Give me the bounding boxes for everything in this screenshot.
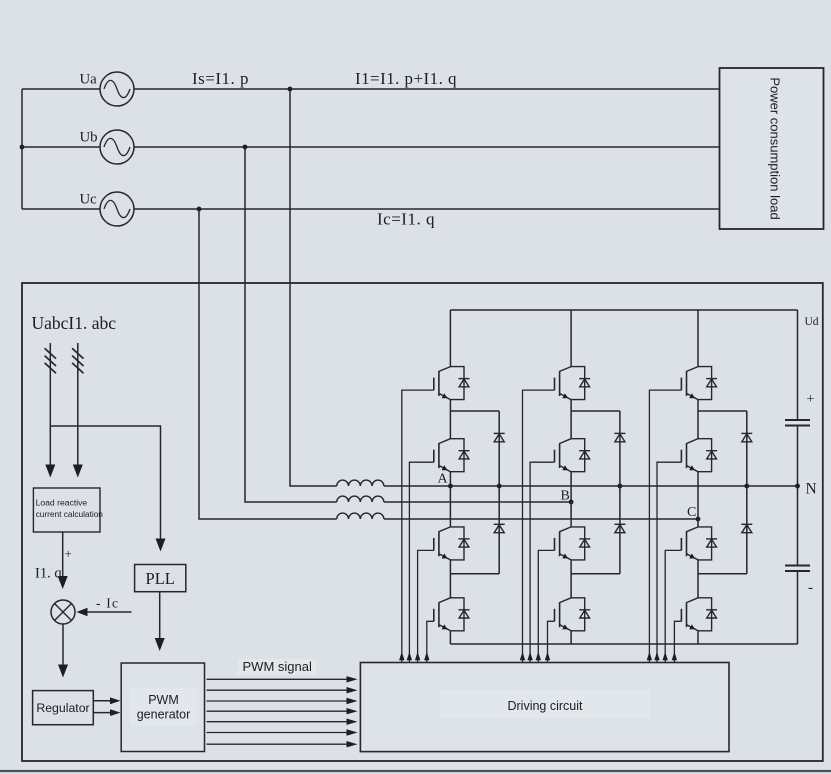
wire tap Ua down to inductor row A bbox=[290, 89, 337, 486]
wire summer to regulator bbox=[62, 624, 64, 665]
wire regulator to pwm 1 bbox=[93, 700, 110, 702]
wire DC right rail upper bbox=[797, 310, 799, 420]
wire clamp lower branch c bbox=[698, 573, 747, 575]
wire T3-T4 link a bbox=[449, 560, 451, 598]
wire T4 emitter stub b bbox=[570, 631, 572, 644]
inductor Lb bbox=[337, 496, 384, 502]
svg-text:B: B bbox=[561, 489, 570, 504]
driving circuit box bbox=[360, 663, 729, 752]
wire clamp upper column c bbox=[746, 411, 748, 486]
wire gate T1a bbox=[402, 390, 434, 662]
signal line I1.abc with arrow bbox=[77, 343, 79, 466]
wire branch to PLL bbox=[50, 426, 160, 539]
node tap on Uc wire bbox=[197, 207, 202, 212]
node N bbox=[795, 484, 800, 489]
PWM generator box bbox=[121, 663, 204, 752]
transistor T4c bbox=[681, 598, 717, 631]
svg-text:I1=I1. p+I1. q: I1=I1. p+I1. q bbox=[355, 69, 457, 88]
wire gate T3a bbox=[418, 550, 434, 662]
diode clamp lower b bbox=[614, 524, 625, 532]
source Ub bbox=[100, 130, 134, 164]
wire gate T1b bbox=[523, 390, 555, 662]
svg-text:Power consumption load: Power consumption load bbox=[768, 77, 783, 219]
svg-text:PLL: PLL bbox=[146, 569, 175, 588]
wire PLL to pwm generator bbox=[159, 592, 161, 639]
wire gate T3c bbox=[665, 550, 681, 662]
svg-text:N: N bbox=[806, 481, 817, 498]
transistor T3b bbox=[555, 527, 591, 560]
wire gate T2c bbox=[657, 462, 681, 662]
transistor T2b bbox=[555, 439, 591, 472]
wire DC bottom rail bbox=[450, 643, 797, 645]
node tap on Ub wire bbox=[243, 145, 248, 150]
wire pwm signal 2 bbox=[207, 689, 348, 691]
summing junction bbox=[51, 600, 75, 624]
wire clamp upper column a bbox=[498, 411, 500, 486]
diode clamp lower c bbox=[741, 524, 752, 532]
transistor T4b bbox=[555, 598, 591, 631]
capacitor C2 bbox=[785, 565, 810, 567]
wire gate T4b bbox=[548, 621, 555, 662]
transistor T2c bbox=[681, 439, 717, 472]
transistor T4a bbox=[434, 598, 470, 631]
svg-text:Ub: Ub bbox=[80, 130, 98, 146]
wire right rail middle bbox=[797, 426, 799, 566]
wire DC top rail bbox=[450, 309, 797, 311]
phase c leg bbox=[647, 310, 753, 663]
diode clamp upper c bbox=[741, 433, 752, 441]
node C bbox=[696, 517, 701, 522]
wire collector stub phase c bbox=[697, 310, 699, 367]
wire row C bbox=[384, 518, 698, 520]
wire Uc to load bbox=[134, 208, 720, 210]
phase b leg bbox=[520, 310, 626, 663]
wire gate T4c bbox=[674, 621, 681, 662]
svg-text:PWM: PWM bbox=[148, 693, 179, 707]
svg-text:generator: generator bbox=[137, 708, 191, 722]
source Uc bbox=[100, 192, 134, 226]
svg-text:Regulator: Regulator bbox=[36, 701, 89, 715]
wire T4 emitter stub a bbox=[449, 631, 451, 644]
svg-text:- Ic: - Ic bbox=[96, 596, 119, 611]
node B bbox=[569, 500, 574, 505]
svg-text:+: + bbox=[807, 392, 815, 407]
wire left bus vertical bbox=[21, 89, 23, 209]
phase a leg bbox=[399, 310, 505, 663]
svg-text:Load reactive: Load reactive bbox=[36, 498, 88, 508]
wire clamp lower branch a bbox=[450, 573, 499, 575]
wire clamp upper branch b bbox=[571, 410, 620, 412]
wire pwm signal 4 bbox=[207, 710, 348, 712]
svg-text:I1. q: I1. q bbox=[35, 566, 62, 582]
source Ua bbox=[100, 72, 134, 106]
svg-text:Uc: Uc bbox=[80, 192, 98, 208]
wire gate T2b bbox=[530, 462, 554, 662]
signal line Uabc with arrow bbox=[49, 343, 51, 466]
transistor T1c bbox=[681, 367, 717, 400]
wire calc box to summer bbox=[62, 532, 64, 577]
transistor T3a bbox=[434, 527, 470, 560]
three-phase slash marks line2 bbox=[72, 348, 83, 358]
wire right rail lower bbox=[797, 571, 799, 644]
svg-text:-: - bbox=[808, 580, 813, 596]
wire gate T3b bbox=[538, 550, 554, 662]
wire tap Ub down to inductor row B bbox=[245, 147, 337, 502]
node clamp A on neutral bbox=[497, 484, 502, 489]
node A bbox=[448, 484, 453, 489]
wire pwm signal 5 bbox=[207, 721, 348, 723]
outer compensator box bbox=[22, 283, 823, 761]
wire T4 emitter stub c bbox=[697, 631, 699, 644]
wire Ua to load bbox=[134, 88, 720, 90]
svg-text:Ic=I1. q: Ic=I1. q bbox=[377, 210, 435, 229]
wire T2 emitter to T3 collector a bbox=[449, 472, 451, 527]
svg-text:PWM signal: PWM signal bbox=[243, 659, 312, 674]
diode clamp upper a bbox=[494, 433, 505, 441]
capacitor C1 bbox=[785, 419, 810, 421]
page frame bottom line bbox=[0, 770, 831, 772]
wire pwm signal 1 bbox=[207, 678, 348, 680]
transistor T1a bbox=[434, 367, 470, 400]
wire T2 emitter to T3 collector b bbox=[570, 472, 572, 527]
inductor La bbox=[337, 480, 384, 486]
wire clamp upper branch c bbox=[698, 410, 747, 412]
regulator box bbox=[33, 691, 94, 725]
wire clamp upper branch a bbox=[450, 410, 499, 412]
wire T1-T2 link a bbox=[449, 400, 451, 439]
wire row A / neutral line bbox=[384, 485, 798, 487]
wire Ub left segment bbox=[22, 146, 100, 148]
wire Ub to load bbox=[134, 146, 720, 148]
wire clamp lower column b bbox=[619, 486, 621, 574]
transistor T1b bbox=[555, 367, 591, 400]
wire T3-T4 link b bbox=[570, 560, 572, 598]
svg-text:Is=I1. p: Is=I1. p bbox=[192, 69, 249, 88]
svg-text:C: C bbox=[687, 505, 696, 520]
wire gate T2a bbox=[409, 462, 433, 662]
wire collector stub phase b bbox=[570, 310, 572, 367]
node clamp B on neutral bbox=[618, 484, 623, 489]
wire T1-T2 link c bbox=[697, 400, 699, 439]
node junction on left bus (phase b) bbox=[20, 145, 25, 150]
wire clamp upper column b bbox=[619, 411, 621, 486]
svg-text:Driving circuit: Driving circuit bbox=[507, 699, 583, 713]
wire tap Uc down to inductor row C bbox=[199, 209, 337, 519]
diode clamp upper b bbox=[614, 433, 625, 441]
wire regulator to pwm 2 bbox=[93, 712, 110, 714]
node tap on Ua wire bbox=[288, 87, 293, 92]
transistor T2a bbox=[434, 439, 470, 472]
wire Ua left segment bbox=[22, 88, 100, 90]
PLL box bbox=[135, 565, 186, 592]
wire Uc left segment bbox=[22, 208, 100, 210]
wire clamp lower column c bbox=[746, 486, 748, 574]
wire T2 emitter to T3 collector c bbox=[697, 472, 699, 527]
svg-text:Ud: Ud bbox=[805, 316, 819, 328]
inductor Lc bbox=[337, 513, 384, 519]
node clamp C on neutral bbox=[744, 484, 749, 489]
svg-text:A: A bbox=[438, 472, 449, 487]
three-phase slash marks line1 bbox=[45, 348, 56, 358]
transistor T3c bbox=[681, 527, 717, 560]
svg-text:+: + bbox=[65, 546, 72, 561]
svg-text:current calculation: current calculation bbox=[36, 509, 104, 519]
wire pwm signal 7 bbox=[207, 743, 348, 745]
wire row B bbox=[384, 501, 571, 503]
wire Ic into summer bbox=[86, 611, 132, 613]
wire collector stub phase a bbox=[449, 310, 451, 367]
wire gate T1c bbox=[649, 390, 681, 662]
wire T3-T4 link c bbox=[697, 560, 699, 598]
load reactive current calculation box bbox=[33, 488, 100, 532]
power consumption load box bbox=[720, 68, 824, 229]
wire pwm signal 6 bbox=[207, 732, 348, 734]
wire clamp lower column a bbox=[498, 486, 500, 574]
svg-text:Ua: Ua bbox=[80, 72, 98, 88]
diode clamp lower a bbox=[494, 524, 505, 532]
wire gate T4a bbox=[427, 621, 434, 662]
wire pwm signal 3 bbox=[207, 700, 348, 702]
svg-text:UabcI1. abc: UabcI1. abc bbox=[32, 313, 117, 333]
wire clamp lower branch b bbox=[571, 573, 620, 575]
wire T1-T2 link b bbox=[570, 400, 572, 439]
